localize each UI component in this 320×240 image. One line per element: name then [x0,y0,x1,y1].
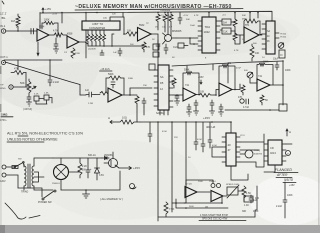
ladder tie wire [112,45,146,47]
node A flag [286,129,288,136]
bridge rectifier BR1 [54,165,69,180]
wire IC to boxes [220,21,222,30]
junction U8 out [129,94,131,96]
IC U11 4013 [268,140,282,165]
junction U1 out [57,34,59,36]
transistor Q4 [109,159,118,168]
resistor R15 2.2K [78,158,82,178]
wire U1 out [49,34,54,36]
feedback loop B [219,65,235,90]
bottom band dark tip [0,225,5,233]
feedback resistor 500K [106,76,124,95]
wire U8 out [122,94,137,96]
cap mid a [194,100,198,108]
long diagonal wire [5,62,80,85]
IC U7 pins right [275,33,279,38]
bias cluster box [178,43,184,48]
cap gnd chorus a [187,104,192,116]
top supply bus [40,11,272,21]
resistor right of U9 [172,78,176,88]
fuse F [12,166,18,169]
paper left edge shadow [0,0,2,225]
cap drop x150 [148,122,152,142]
wire 47K ties [18,60,26,87]
delay op-amp U8 [108,88,122,102]
resistor R13 [242,186,246,201]
power switch [44,191,54,198]
resistor R24 below U6 [250,44,254,61]
cap after U8 [142,98,146,107]
resistor feedback U6 [244,19,260,35]
cap circle lower [240,99,244,103]
resistor below C [260,95,264,105]
mains jack lower [2,173,6,177]
junction U9 out [176,94,178,96]
junction psu [85,189,87,191]
speed pot box [227,187,238,195]
junction extra b [111,45,113,47]
resistor R1 1M [16,14,20,31]
wire boxes to U6 [235,30,244,44]
bus tail verticals [250,13,258,21]
transformer T1 primary [24,166,26,186]
row2 top wire [4,59,62,61]
scratch mark [5,203,40,219]
bus drop 1 [157,122,159,221]
wire boxes join [231,22,235,33]
wire to IC1 [176,38,198,46]
converter pins [88,30,104,34]
transformer core [28,164,30,188]
cap column a [156,40,160,50]
earth circle G [130,184,135,189]
bottom wire psu [61,171,120,190]
paper right edge shadow [318,55,320,225]
IC U7 BBD2 [266,21,275,54]
input resistor U8 [100,92,108,96]
rail junctions [157,121,232,123]
bus drop 6 with cap [208,122,212,148]
U10 pins left [222,137,226,162]
filter box F2 [222,28,231,34]
flanged underline [274,173,298,183]
bus drop 5 with cap [201,122,205,152]
wire U2 out [79,42,88,44]
sws underline [199,220,246,222]
led D1 [211,184,215,188]
series cap C1 [31,29,34,35]
bus resistor r1 [156,14,160,25]
lfo feedback wire 2 [176,199,228,208]
mid band top wire [172,61,283,66]
cap gnd chorus b [219,104,224,116]
left edge smudge 1 [0,66,1,74]
converter box U3 [82,21,120,30]
resistor 4.7K interstage [54,33,67,39]
feedback cap [111,82,115,88]
trimpot circle right [278,43,284,49]
wire lfo right [256,186,258,210]
wire IC1 top [208,13,210,18]
clock osc circle [245,150,253,158]
lfo out wires [198,191,244,196]
right vertical mid [282,61,284,105]
node A feed [110,121,113,124]
resistor col x235 [233,13,237,31]
gnd chorus c [194,108,199,115]
footswitch drop wire [37,42,39,56]
title underline [75,9,243,10]
mains wires [6,164,24,188]
cluster box b [44,95,49,100]
resistor col x235 b [233,33,237,44]
resistor R14 [164,202,168,217]
bus drop 4 with cap [194,122,198,150]
wires U10 U11 [240,134,264,167]
diagonal drop vertical [79,85,81,96]
cap C3b ground [100,50,104,55]
op-amp U1 [37,29,49,41]
resistor ladder a [87,34,90,46]
wire B out [232,84,240,90]
junction y110 [269,109,271,111]
wire U6 out [259,34,262,35]
vertical x123 bus [122,13,124,18]
bus junctions right [167,12,259,14]
feedback loop C [257,63,273,85]
notes underline [7,136,44,142]
resistor second stage vert [71,48,75,58]
op-amp U6 [244,27,259,43]
cap C6 [249,195,253,203]
cap U9 out [175,96,179,101]
tall IC U9 [158,65,169,110]
mains jack upper [2,165,6,169]
feedback loop A [183,72,199,95]
chorus opamp B [219,83,232,96]
wire Q1 top [167,13,169,35]
transformer T1 secondary [32,166,34,186]
+15V arrow psu [119,167,132,170]
resistor ladder d [99,34,102,46]
box end mid [279,104,287,111]
long vertical x86 [85,13,87,59]
resistor 47K below U4 [142,42,146,52]
drop wires from top wire [187,63,228,83]
transformer wires [24,158,53,190]
junction x50 [49,59,51,61]
small box bias 1 [153,44,159,50]
wire column a [158,25,171,36]
resistor after U8 [135,96,139,106]
wire lfo to rail [184,180,213,203]
wire into U8 [80,94,100,97]
IC U7 pins left [262,24,266,49]
cap 15uF [275,62,279,70]
wire U9 out [173,94,183,96]
vertical x50 [49,60,51,79]
switch wires [18,188,42,197]
loop wires feedback [110,17,124,30]
bus tie vertical [61,13,63,24]
junction ladder [103,45,105,47]
op-amp U4 [138,28,152,42]
ground psu [83,190,90,198]
wire loop to U4 [112,30,124,46]
U11 pins left [264,144,268,161]
arrow +15V mid [200,80,202,84]
junction bus tie [61,12,63,14]
phone jack TIP [9,85,13,89]
wire U4 out [151,34,158,65]
cap C8 plus [86,158,90,178]
junction dots chorus [198,89,236,96]
top wire psu [53,157,109,159]
diode small psu [102,157,109,160]
bus up arrow [42,8,44,13]
U11 pins right [282,144,286,161]
bottom grey band [0,225,320,233]
primary switch SW [15,163,23,168]
input cap U8 [86,92,95,97]
junction C out [282,84,284,86]
junction b [193,43,195,45]
wire U8 to box [130,88,152,95]
wire C out [270,84,283,86]
U9 pins right [169,70,173,107]
U10 pins right [236,137,240,162]
cluster box a [34,96,39,101]
junction x86 [85,12,87,14]
small box mv [244,196,253,202]
bus drop left [39,13,41,30]
input jack J1 [1,29,5,33]
bus drop 3 [185,122,187,203]
cap C3 [118,48,122,56]
wire up right lfo [255,210,257,217]
bus junctions left [42,12,172,14]
ground U9 out [175,101,180,105]
bridge wires [61,158,80,190]
resistor ladder c [95,34,98,46]
lfo junctions [175,202,223,209]
gnd chorus d [210,108,215,115]
delay label underline [100,70,113,72]
volume pot 50K [27,79,36,97]
U9 pins left [154,70,158,106]
out jack J2 [2,61,6,65]
cap column b [164,44,168,54]
IC U5 pins right [216,21,220,50]
op-amp U2 [67,36,79,48]
wire trim to C [250,78,257,83]
wire input [6,30,37,32]
resistor 47K mid [241,85,245,95]
cluster wires [36,98,52,105]
IC U10 4047 [226,133,236,166]
mid low wire y110 [225,109,279,111]
junction extra c [150,33,152,35]
input resistor U4 10K [124,32,138,36]
IC U5 pins left [198,21,202,50]
feedback resistor 100K [42,22,58,36]
cap C13 tp [178,13,182,25]
resistor 10K mid [199,94,214,98]
wire U10 top [230,122,232,133]
lfo opamp L2 [211,191,223,202]
resistor 47K row2 [11,71,26,75]
tick mark top left [2,1,4,4]
cap mid b [210,100,214,108]
bottom rail lfo [158,216,255,218]
IC U5 BBD [202,17,216,53]
main +15V rail [140,121,231,123]
cap lower bars [246,99,249,104]
wire U11 bottom [264,165,275,172]
junction R1 [17,30,19,32]
wires down cluster [137,106,144,122]
resistor ladder e [103,34,106,46]
zener D3 [95,158,100,180]
cap C7 right [283,182,287,218]
wires bus to U10 [212,147,222,157]
ladder bottom wire [88,45,112,47]
transistor Q1 [165,35,172,42]
junction extra a [123,33,125,35]
U9 bottom pins [160,110,168,115]
small box bias 2 [153,52,159,57]
lfo feedback wire 1 [172,196,222,203]
bus resistor r2 [163,14,167,25]
led D2 [217,184,221,188]
bus resistor r3 [169,14,173,25]
cap 2.2uF row2 [48,80,52,86]
resistor R12 10ohm [113,120,140,124]
small box D [279,50,285,58]
chorus opamp C [257,79,270,91]
node V circle [286,151,291,156]
wire jack to pot [13,86,29,88]
junction top right [282,60,284,62]
left edge smudge 2 [0,104,1,112]
chorus opamp A [183,88,196,101]
wire U10 bottom out [231,166,248,180]
cap C2 with ground [54,38,59,53]
bus drop 2 [171,122,173,212]
wire into B [214,90,219,96]
pot cap ground [27,97,32,106]
corner note underline [1,116,13,118]
secondary taps [34,172,44,182]
trimpot circle [247,72,253,78]
resistor ladder b [91,34,94,46]
wire A out [196,94,199,96]
filter box F1 [222,19,231,25]
lfo opamp L1 [185,187,197,198]
junction a [189,37,191,39]
boxes right small [149,64,155,70]
wire V [286,143,292,145]
